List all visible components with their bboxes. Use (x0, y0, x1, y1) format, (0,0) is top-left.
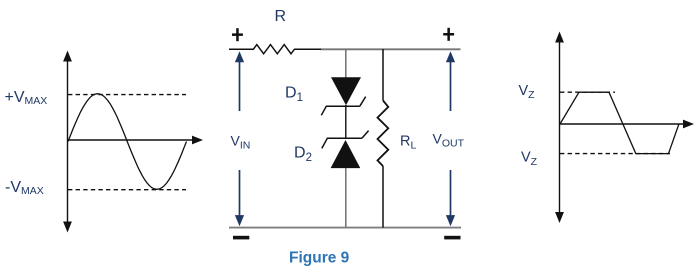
zener diode D1 (321, 77, 365, 115)
svg-text:VZ: VZ (519, 83, 536, 101)
-Vz dashed level line (560, 153, 670, 155)
svg-text:D1: D1 (285, 84, 303, 104)
wire stub D2 to bottom rail (345, 168, 347, 228)
+ sign (input left) (232, 28, 243, 41)
svg-text:D2: D2 (294, 144, 312, 164)
+ sign (output right) (443, 28, 454, 41)
minus sign (bottom left) (233, 236, 249, 240)
wire stub top rail to D1 (345, 49, 347, 78)
right graph vertical axis (555, 32, 564, 224)
svg-text:RL: RL (400, 134, 416, 152)
svg-text:VOUT: VOUT (433, 130, 465, 149)
resistor R (229, 45, 321, 54)
input sine waveform (68, 94, 187, 190)
wire RL branch bottom (382, 166, 384, 228)
left graph horizontal axis (68, 136, 204, 145)
zener diode D2 (322, 131, 369, 169)
wire between D1 and D2 (345, 105, 347, 139)
clipped output waveform (560, 92, 679, 153)
svg-text:+VMAX: +VMAX (5, 89, 48, 107)
left graph vertical axis (63, 51, 72, 233)
right graph horizontal axis (560, 120, 695, 129)
-Vmax dashed level line (68, 189, 186, 191)
wire bottom rail (229, 227, 461, 229)
voltage arrow VIN (235, 51, 244, 226)
minus sign (bottom right) (444, 236, 460, 240)
resistor RL (378, 101, 389, 167)
svg-text:-VMAX: -VMAX (5, 179, 44, 197)
voltage arrow VOUT (446, 51, 455, 226)
wire top rail (321, 48, 461, 50)
+Vz dashed level line (560, 91, 615, 93)
svg-text:R: R (275, 8, 287, 25)
+Vmax dashed level line (68, 94, 186, 96)
wire RL branch top (382, 49, 384, 101)
svg-text:VZ: VZ (521, 150, 538, 168)
svg-text:Figure 9: Figure 9 (289, 250, 350, 267)
svg-text:VIN: VIN (231, 133, 251, 152)
